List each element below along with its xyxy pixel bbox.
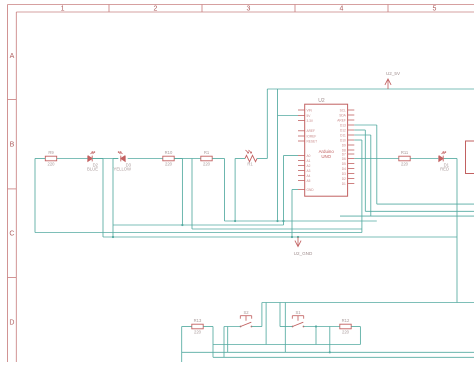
svg-text:A1: A1 xyxy=(307,159,311,163)
svg-text:220: 220 xyxy=(194,330,202,335)
svg-text:D2: D2 xyxy=(342,177,346,181)
svg-text:4: 4 xyxy=(340,6,344,13)
svg-text:A5: A5 xyxy=(307,179,311,183)
svg-text:5: 5 xyxy=(433,6,437,13)
svg-text:R9: R9 xyxy=(48,150,54,155)
svg-text:AREF: AREF xyxy=(307,129,316,133)
svg-text:IOREF: IOREF xyxy=(307,134,317,138)
svg-text:AREF: AREF xyxy=(337,118,346,122)
svg-text:VIN: VIN xyxy=(307,108,313,112)
svg-text:220: 220 xyxy=(401,162,409,167)
svg-text:D4: D4 xyxy=(342,167,346,171)
svg-text:D9: D9 xyxy=(342,143,346,147)
svg-text:UNO: UNO xyxy=(321,154,331,159)
svg-text:A0: A0 xyxy=(307,154,311,158)
svg-text:2: 2 xyxy=(154,6,158,13)
svg-text:R11: R11 xyxy=(401,150,409,155)
svg-text:D1: D1 xyxy=(342,182,346,186)
svg-text:D13: D13 xyxy=(340,123,346,127)
svg-text:BLUE: BLUE xyxy=(87,167,98,172)
svg-text:D7: D7 xyxy=(342,152,346,156)
svg-text:D6: D6 xyxy=(342,157,346,161)
svg-text:U2_5V: U2_5V xyxy=(386,71,401,76)
svg-text:C: C xyxy=(9,231,14,238)
svg-text:220: 220 xyxy=(165,162,173,167)
svg-text:S1: S1 xyxy=(295,310,301,315)
svg-text:R1: R1 xyxy=(247,161,253,166)
svg-text:YELLOW: YELLOW xyxy=(114,167,132,172)
svg-text:R1: R1 xyxy=(204,150,210,155)
svg-text:B: B xyxy=(10,142,15,149)
svg-text:A3: A3 xyxy=(307,169,311,173)
svg-text:3: 3 xyxy=(247,6,251,13)
svg-text:SCL: SCL xyxy=(340,108,346,112)
svg-text:1: 1 xyxy=(61,6,65,13)
svg-text:SDA: SDA xyxy=(339,113,346,117)
svg-text:220: 220 xyxy=(48,162,56,167)
svg-text:RED: RED xyxy=(440,167,449,172)
svg-text:D: D xyxy=(9,320,14,327)
svg-text:220: 220 xyxy=(203,162,211,167)
svg-text:D3: D3 xyxy=(342,172,346,176)
svg-text:D11: D11 xyxy=(340,133,346,137)
svg-text:RESET: RESET xyxy=(307,139,318,143)
svg-text:R13: R13 xyxy=(194,318,202,323)
svg-text:U2_GND: U2_GND xyxy=(294,251,313,256)
svg-text:R12: R12 xyxy=(342,318,350,323)
svg-text:U2: U2 xyxy=(318,98,325,104)
svg-text:S2: S2 xyxy=(243,310,249,315)
svg-text:A4: A4 xyxy=(307,174,311,178)
svg-text:220: 220 xyxy=(342,330,350,335)
svg-text:GND: GND xyxy=(307,188,315,192)
svg-text:D5: D5 xyxy=(342,162,346,166)
svg-text:D10: D10 xyxy=(340,138,346,142)
svg-text:3.3V: 3.3V xyxy=(307,119,314,123)
svg-text:A: A xyxy=(10,53,15,60)
svg-text:R10: R10 xyxy=(165,150,173,155)
svg-text:D12: D12 xyxy=(340,128,346,132)
svg-text:A2: A2 xyxy=(307,164,311,168)
